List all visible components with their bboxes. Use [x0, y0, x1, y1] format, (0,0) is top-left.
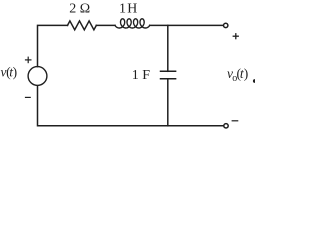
capacitor C top plate — [161, 70, 176, 72]
label 2 ohm — [69, 2, 90, 17]
svg-text:): ) — [13, 65, 18, 80]
label 1 F — [132, 68, 151, 83]
plus sign output — [233, 33, 239, 39]
wire from inductor to top-right terminal — [150, 24, 224, 26]
svg-text:1 F: 1 F — [132, 68, 151, 83]
wire top-left segment — [38, 25, 68, 66]
svg-text:1: 1 — [119, 1, 126, 16]
svg-text:H: H — [127, 1, 137, 16]
minus sign output — [232, 120, 239, 122]
wire capacitor bottom stub — [167, 79, 169, 126]
terminal node bottom-right — [224, 124, 228, 128]
label 1 H — [119, 1, 137, 16]
wire between resistor and inductor — [96, 24, 115, 26]
wire capacitor top stub — [167, 25, 169, 71]
period cut at right edge — [253, 79, 257, 83]
capacitor C bottom plate — [161, 78, 176, 80]
svg-text:): ) — [244, 66, 249, 81]
terminal node top-right — [224, 23, 228, 27]
wire bottom — [38, 86, 224, 126]
minus sign of source — [25, 96, 31, 98]
svg-text:2 Ω: 2 Ω — [69, 2, 90, 17]
plus sign of source — [25, 57, 32, 64]
resistor R (2 ohm) — [68, 21, 97, 30]
label v(t) — [1, 65, 18, 80]
label vo(t) — [227, 66, 248, 84]
inductor L (1 H) — [115, 19, 150, 28]
voltage source V circle — [28, 67, 47, 86]
